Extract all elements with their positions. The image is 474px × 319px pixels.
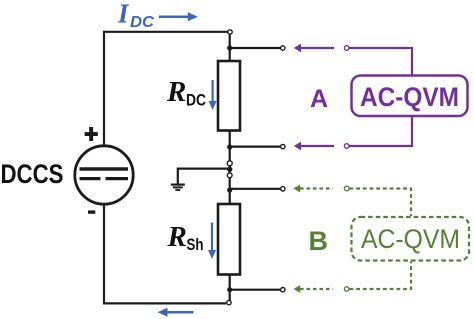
svg-text:R: R — [166, 76, 186, 108]
wire between R_DC and R_Sh — [229, 131, 231, 204]
svg-text:Sh: Sh — [187, 235, 204, 254]
arrow bottom return current — [158, 308, 194, 317]
connector circle upper mid-node — [227, 161, 232, 166]
wire stub to terminal B-low — [230, 289, 280, 291]
terminal circle B-high — [281, 187, 285, 191]
probe connector circle A-high — [344, 46, 349, 51]
label R_Sh — [167, 221, 204, 254]
probe connector circle B-high — [344, 186, 349, 191]
terminal circle B-low — [281, 288, 285, 292]
junction dot R_Sh bottom — [227, 287, 232, 292]
ground wire — [178, 168, 230, 185]
svg-text:I: I — [117, 0, 130, 29]
terminal circle A-low — [281, 144, 285, 148]
AC-QVM A box — [352, 76, 468, 117]
junction dot ground tap — [227, 167, 232, 172]
resistor R_Sh body — [218, 204, 240, 275]
DC symbol dashed bar — [80, 177, 129, 180]
junction dot R_Sh top — [227, 187, 232, 192]
wire B-low to AC-QVM B — [350, 262, 412, 290]
wire B-high to AC-QVM B — [350, 189, 412, 217]
label R_DC — [166, 76, 206, 110]
DC symbol solid bar — [80, 167, 129, 170]
ground symbol — [171, 185, 185, 190]
wire A-high to AC-QVM A — [350, 48, 413, 75]
svg-text:DC: DC — [186, 91, 206, 110]
probe arrow B-low — [293, 285, 333, 293]
terminal circle bottom wire end — [227, 300, 231, 304]
junction dot top node — [227, 45, 232, 50]
wire left vertical upper — [103, 31, 105, 147]
label minus terminal — [88, 210, 95, 213]
svg-text:AC-QVM: AC-QVM — [361, 224, 460, 254]
svg-text:B: B — [309, 226, 329, 256]
svg-text:AC-QVM: AC-QVM — [360, 82, 459, 112]
label I_DC — [117, 0, 155, 31]
wire top horizontal — [103, 31, 228, 33]
wire below R_Sh — [229, 274, 231, 301]
wire A-low to AC-QVM A — [350, 117, 413, 146]
svg-text:DC: DC — [130, 14, 155, 31]
probe connector circle B-low — [344, 287, 349, 292]
svg-text:R: R — [167, 221, 187, 253]
terminal circle top wire end — [228, 30, 232, 34]
wire stub to terminal A-low — [230, 146, 280, 148]
label plus terminal — [85, 127, 98, 141]
wire stub to terminal B-high — [230, 188, 280, 190]
terminal circle A-high — [281, 46, 285, 50]
wire center vertical (node column) — [229, 34, 231, 61]
AC-QVM B box — [352, 217, 470, 261]
svg-text:A: A — [310, 85, 328, 113]
wire left vertical lower — [103, 204, 105, 305]
arrow R_Sh current — [208, 223, 216, 260]
probe arrow A-high — [294, 44, 334, 52]
junction dot R_DC bottom — [227, 144, 232, 149]
wire stub to terminal A-high — [230, 47, 280, 49]
arrow I_DC direction — [159, 12, 198, 21]
svg-text:DCCS: DCCS — [1, 159, 64, 189]
probe connector circle A-low — [344, 144, 349, 149]
arrow R_DC current — [209, 80, 217, 110]
connector circle lower mid-node — [227, 173, 232, 178]
resistor R_DC body — [218, 61, 240, 131]
DC current source U1 circle — [75, 146, 133, 204]
probe arrow A-low — [294, 142, 334, 150]
probe arrow B-high — [293, 185, 333, 193]
wire bottom horizontal — [103, 302, 226, 304]
